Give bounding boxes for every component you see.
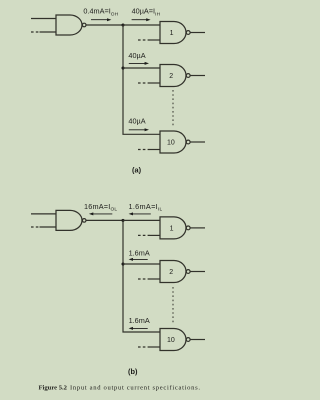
wire: vertical trunk (b) <box>123 220 160 332</box>
wire: node to gate 2 (a) top input <box>123 67 160 69</box>
arrow right on gate 10 branch <box>129 128 149 131</box>
gate 2 (a) second input (dashed continuation) <box>138 82 160 84</box>
load NAND gate 10 (b) <box>160 329 186 351</box>
wire: driver (b) output to node <box>86 219 123 221</box>
arrow left on gate 10 (b) branch <box>129 327 148 330</box>
driver NAND gate (a) <box>56 15 82 35</box>
gate 1 (a) second input (dashed continuation) <box>138 39 160 41</box>
wire: node to gate 1 (b) top input <box>123 219 160 221</box>
node: junction dot J2a <box>121 66 124 69</box>
arrow right on gate 2 branch <box>129 62 149 65</box>
dashed ellipsis line between gate 2 and gate 10 (a) <box>172 90 174 128</box>
arrow left on gate 2 (b) branch <box>129 258 148 261</box>
svg-text:40µA: 40µA <box>128 51 145 60</box>
gate 10 (a) second input (dashed continuation) <box>138 149 160 151</box>
node: junction dot J1b <box>121 219 124 222</box>
gate 1 (a) output bubble <box>186 31 190 35</box>
gate 2 (a) output wire <box>190 75 205 77</box>
driver (a) top input wire <box>31 18 56 20</box>
load NAND gate 2 (b) <box>160 261 186 283</box>
svg-text:Figure 5.2: Figure 5.2 <box>39 385 68 392</box>
load NAND gate 1 (a) <box>160 22 186 44</box>
svg-text:2: 2 <box>169 269 173 276</box>
gate 2 (a) output bubble <box>186 74 190 78</box>
svg-text:Input and output current speci: Input and output current specifications. <box>70 385 201 392</box>
svg-text:(a): (a) <box>132 166 142 175</box>
gate 2 (b) output bubble <box>186 270 190 274</box>
arrow left under 16mA label <box>89 212 112 215</box>
wire: vertical trunk (a) <box>123 25 160 134</box>
svg-text:10: 10 <box>167 337 175 344</box>
node: junction dot J2b <box>121 262 124 265</box>
svg-text:(b): (b) <box>128 367 138 376</box>
svg-text:2: 2 <box>169 73 173 80</box>
driver (a) output bubble <box>82 23 86 27</box>
driver (b) top input wire <box>31 213 56 215</box>
svg-text:10: 10 <box>167 140 175 147</box>
svg-text:1: 1 <box>170 30 174 37</box>
gate 1 (b) output bubble <box>186 226 190 230</box>
svg-text:40µA: 40µA <box>128 116 145 125</box>
arrow left under 1.6mA=IIL label <box>129 212 151 215</box>
arrow right under 40uA=IIH label <box>132 18 151 21</box>
gate 10 (a) output wire <box>190 141 205 143</box>
svg-text:1.6mA: 1.6mA <box>129 316 150 325</box>
gate 10 (a) output bubble <box>186 140 190 144</box>
load NAND gate 10 (a) <box>160 131 186 153</box>
node: junction dot J1a <box>121 23 124 26</box>
gate 10 (b) output wire <box>190 339 205 341</box>
gate 1 (b) second input (dashed continuation) <box>138 234 160 236</box>
wire: driver (a) output to node <box>86 24 123 26</box>
wire: node to gate 1 (a) top input <box>123 24 160 26</box>
gate 2 (b) output wire <box>190 271 205 273</box>
gate 1 (b) output wire <box>190 227 205 229</box>
arrow right under 0.4mA label <box>91 18 111 21</box>
dashed ellipsis line between gate 2 and gate 10 (b) <box>172 287 174 323</box>
driver NAND gate (b) <box>56 210 82 230</box>
svg-text:1.6mA: 1.6mA <box>129 248 150 257</box>
load NAND gate 2 (a) <box>160 65 186 87</box>
svg-text:1: 1 <box>170 225 174 232</box>
driver (b) output bubble <box>82 219 86 223</box>
driver (b) bottom input wire (dashed continuation) <box>31 226 56 228</box>
gate 10 (b) output bubble <box>186 338 190 342</box>
load NAND gate 1 (b) <box>160 217 186 239</box>
wire: node to gate 2 (b) top input <box>123 263 160 265</box>
gate 10 (b) second input (dashed continuation) <box>138 346 160 348</box>
gate 2 (b) second input (dashed continuation) <box>138 278 160 280</box>
gate 1 (a) output wire <box>190 32 205 34</box>
driver (a) bottom input wire (dashed continuation) <box>31 31 56 33</box>
